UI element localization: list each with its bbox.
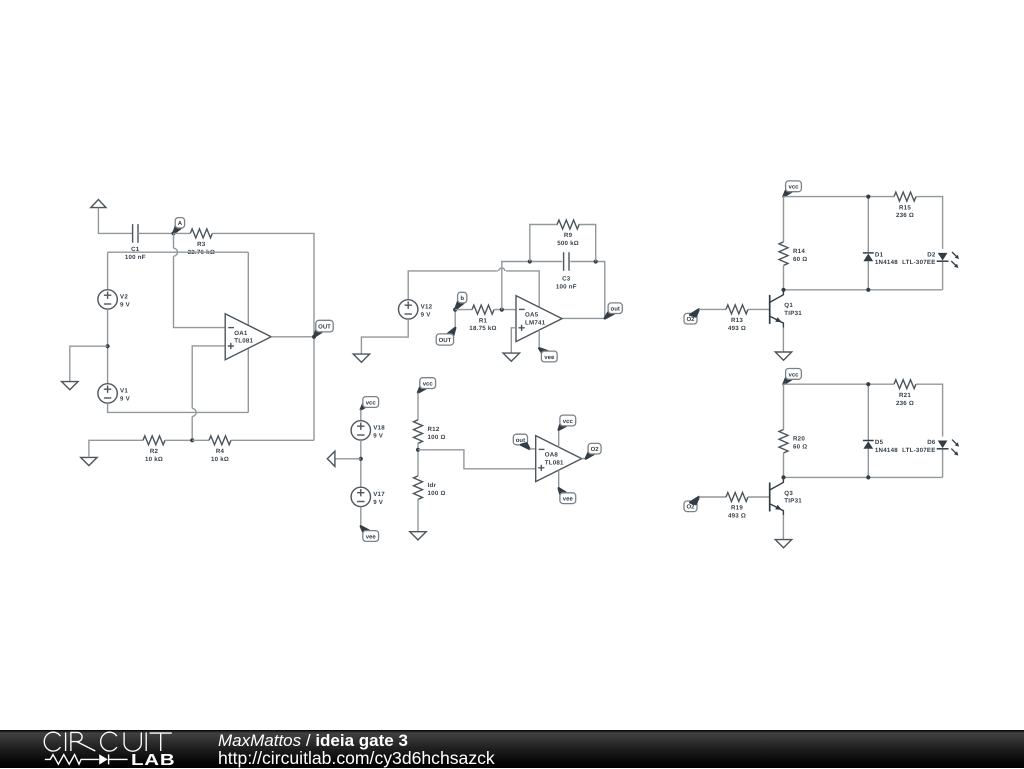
junction dot: [594, 259, 598, 263]
op-amp OA8: [536, 436, 582, 482]
wire: [165, 439, 192, 441]
transistor Q1: [770, 290, 803, 328]
LED D2: [902, 251, 959, 268]
wire plus input: [192, 346, 225, 440]
wire: [408, 268, 539, 307]
junction dot: [190, 438, 194, 442]
wire: [108, 251, 249, 253]
wire V- pin: [538, 330, 540, 348]
resistor R12: [414, 420, 446, 444]
flag vcc (OA8): [559, 415, 576, 430]
ground: [775, 540, 791, 548]
voltage source V2: [98, 290, 131, 309]
resistor R9: [557, 220, 579, 247]
node b flag: [455, 292, 467, 309]
resistor R14: [779, 242, 807, 266]
diode D1: [863, 251, 898, 266]
junction dot: [106, 344, 110, 348]
wire: [417, 499, 419, 531]
junction dot node b: [453, 308, 457, 312]
junction dot: [500, 308, 504, 312]
wire output: [271, 336, 314, 338]
port arrow (left): [327, 451, 361, 466]
wire: [231, 439, 314, 441]
footer bar: [0, 730, 1024, 768]
wire behind op-amp: [247, 252, 249, 412]
wire: [360, 507, 362, 527]
wire emitter to ground: [782, 515, 784, 539]
wire: [98, 208, 133, 234]
wire R9 branch: [530, 225, 596, 262]
flag vcc (V18): [361, 397, 379, 410]
flag OUT (node b): [436, 310, 455, 346]
resistor R19: [726, 493, 748, 520]
resistor R20: [779, 430, 807, 454]
voltage source V18: [351, 421, 385, 440]
junction dot output: [312, 335, 316, 339]
wire: [748, 308, 770, 310]
flag O2 (Q1 block): [684, 309, 699, 324]
junction dot node A: [171, 231, 175, 235]
flag OUT: [314, 320, 333, 337]
wire V+ pin: [558, 430, 560, 448]
wire emitter to ground: [782, 328, 784, 352]
wire: [916, 384, 943, 477]
ground: [775, 352, 791, 360]
resistor R3: [188, 229, 215, 256]
wire node A to op-amp minus: [174, 233, 226, 327]
ground: [81, 457, 97, 465]
resistor R1: [469, 305, 496, 332]
flag vcc (R12): [418, 378, 436, 393]
port arrow (top-left input): [91, 200, 106, 208]
resistor R15: [894, 192, 916, 219]
logo text LAB: [131, 753, 175, 769]
ground: [62, 382, 78, 390]
wire: [494, 309, 516, 311]
wire: [417, 443, 419, 476]
junction dot: [866, 288, 870, 292]
ground: [410, 532, 426, 540]
junction dot: [781, 475, 785, 479]
wire: [867, 197, 869, 290]
wire: [138, 232, 174, 234]
ground: [503, 353, 519, 361]
footer url text: [218, 750, 495, 768]
flag out (OA5): [605, 303, 623, 319]
transistor Q3: [770, 477, 803, 515]
capacitor C1: [125, 224, 146, 261]
flag out (OA8 minus): [513, 434, 529, 449]
wire: [417, 393, 419, 420]
flag vcc (Q1 block): [784, 181, 802, 197]
resistor R21: [894, 380, 916, 407]
wire: [108, 403, 249, 412]
node A flag: [174, 218, 185, 234]
wire: [107, 252, 109, 290]
wire: [867, 384, 869, 477]
wire: [89, 440, 143, 457]
wire: [783, 197, 785, 242]
flag vee (OA8): [559, 488, 576, 503]
junction dot: [866, 475, 870, 479]
resistor Idr: [414, 476, 446, 500]
wire feedback: [502, 262, 605, 319]
resistor R4: [209, 436, 231, 463]
wire: [174, 232, 191, 234]
wire: [212, 233, 314, 440]
wire to OA8 plus: [418, 450, 536, 469]
junction dot: [866, 195, 870, 199]
resistor R2: [143, 436, 165, 463]
wire top rail: [784, 196, 895, 198]
op-amp OA1: [225, 314, 271, 360]
voltage source V17: [351, 487, 385, 506]
voltage source V1: [98, 384, 131, 403]
resistor R13: [726, 305, 748, 332]
wire: [361, 319, 408, 354]
wire: [70, 346, 108, 381]
junction dot: [359, 457, 363, 461]
diode D5: [863, 439, 898, 454]
flag vee (V17): [361, 526, 379, 541]
logo waveform resistor-diode: [45, 754, 128, 764]
wire: [192, 439, 209, 441]
wire: [699, 308, 726, 310]
wire: [530, 448, 536, 450]
op-amp OA5: [516, 296, 562, 342]
flag vee (OA5): [539, 348, 557, 362]
wire: [784, 453, 943, 477]
logo text CIRCUIT: [44, 732, 172, 751]
wire: [916, 197, 943, 290]
wire V- pin: [558, 470, 560, 488]
flag vcc (Q3 block): [784, 369, 802, 385]
wire: [107, 309, 109, 384]
wire plus to ground: [511, 328, 516, 353]
wire: [699, 496, 726, 498]
flag O2 (Q3 block): [684, 497, 699, 512]
wire output: [582, 458, 586, 460]
footer title MaxMattos / ideia gate 3: [218, 732, 408, 749]
wire top rail: [784, 383, 895, 385]
wire: [784, 265, 943, 289]
capacitor C3: [556, 252, 577, 290]
wire: [783, 384, 785, 429]
wire: [360, 410, 362, 421]
wire: [748, 496, 770, 498]
junction dot: [866, 382, 870, 386]
junction dot: [416, 448, 420, 452]
voltage source V12: [399, 300, 433, 319]
wire: [455, 309, 472, 311]
LED D6: [902, 439, 959, 456]
junction dot: [528, 259, 532, 263]
ground: [353, 354, 369, 362]
junction dot: [781, 288, 785, 292]
wire: [360, 440, 362, 487]
flag O2 (OA8): [586, 443, 601, 458]
